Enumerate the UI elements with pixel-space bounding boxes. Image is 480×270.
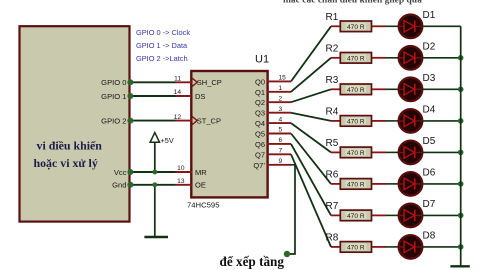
svg-text:D2: D2 [423, 42, 436, 53]
pin name Q4 [255, 119, 265, 128]
svg-text:D4: D4 [423, 105, 436, 116]
resistor label R2 [326, 44, 339, 55]
pin stub DS (pin 14) [176, 95, 193, 97]
svg-text:SH_CP: SH_CP [197, 78, 222, 87]
svg-text:2: 2 [279, 95, 283, 102]
pin name SH_CP [197, 78, 222, 87]
svg-text:R6: R6 [326, 170, 339, 181]
LED label D5 [423, 136, 436, 147]
resistor R2 [331, 53, 386, 64]
svg-text:4: 4 [279, 116, 283, 123]
svg-text:12: 12 [174, 114, 182, 121]
wire Q5 to R6 [291, 134, 331, 184]
svg-text:Q5: Q5 [255, 130, 265, 139]
pin name ST_CP [197, 117, 221, 126]
svg-text:D3: D3 [423, 73, 436, 84]
pin number 15 [279, 75, 287, 82]
wire D8 to bus [422, 246, 461, 248]
svg-text:U1: U1 [255, 54, 269, 66]
LED label D3 [423, 73, 436, 84]
junction dot bus row 2 [458, 55, 464, 61]
svg-text:Q6: Q6 [255, 140, 265, 149]
wire R8 to D8 [386, 246, 400, 248]
+5V power symbol [150, 133, 159, 172]
svg-text:9: 9 [279, 158, 283, 165]
wire R2 to D2 [386, 57, 400, 59]
wire Q1 to R2 [291, 58, 331, 92]
pin stub Q0 (pin 15) [267, 80, 291, 82]
svg-text:Q7’: Q7’ [253, 161, 265, 170]
svg-text:74HC595: 74HC595 [187, 201, 219, 210]
wire Vcc to chip [130, 171, 176, 173]
svg-text:Q2: Q2 [255, 98, 265, 107]
LED label D2 [423, 42, 436, 53]
svg-text:Vcc: Vcc [114, 168, 127, 177]
cut-off caption text (top edge) [283, 0, 422, 5]
pin number 5 [279, 127, 283, 134]
resistor R1 [331, 21, 386, 32]
shift register U1 74HC595 body [191, 71, 267, 197]
MCU pin label GPIO 0 [101, 78, 126, 87]
wire D1 to bus [422, 25, 461, 27]
terminal dot GPIO 0 [127, 79, 133, 85]
pin name Q6 [255, 140, 265, 149]
svg-text:Q7: Q7 [255, 150, 265, 159]
LED D6 [399, 172, 423, 196]
terminal dot GPIO 1 [127, 93, 133, 99]
resistor label R8 [326, 233, 339, 244]
svg-text:DS: DS [195, 92, 205, 101]
svg-text:D6: D6 [423, 168, 436, 179]
svg-text:vi điều khiển: vi điều khiển [37, 138, 103, 152]
pin name Q1 [255, 88, 265, 97]
pin stub Q4 (pin 4) [267, 122, 291, 124]
cascade label [220, 254, 285, 269]
resistor R7 [331, 210, 386, 221]
pin name MR [195, 168, 207, 177]
svg-text:Q4: Q4 [255, 119, 265, 128]
pin name Q7 [255, 150, 265, 159]
pin stub Q6 (pin 6) [267, 143, 291, 145]
wire R3 to D3 [386, 88, 400, 90]
resistor R4 [331, 116, 386, 127]
pin number 4 [279, 116, 283, 123]
annotation GPIO 1 -> Data [136, 41, 188, 50]
microcontroller label line 1 [37, 138, 103, 152]
pin stub SH_CP (pin 11) [176, 81, 193, 83]
svg-text:OE: OE [195, 181, 206, 190]
junction dot bus row 4 [458, 118, 464, 124]
pin stub Q5 (pin 5) [267, 133, 291, 135]
pin stub Q1 (pin 1) [267, 91, 291, 93]
pin stub OE (pin 13) [176, 184, 193, 186]
MCU pin label GPIO 1 [101, 92, 126, 101]
svg-text:hoặc vi xử lý: hoặc vi xử lý [34, 156, 98, 170]
svg-text:Q1: Q1 [255, 88, 265, 97]
annotation GPIO 2 ->Latch [136, 54, 188, 63]
svg-text:GPIO 0: GPIO 0 [101, 78, 126, 87]
svg-text:Gnd: Gnd [112, 181, 126, 190]
annotation GPIO 0 -> Clock [136, 28, 190, 37]
LED label D6 [423, 168, 436, 179]
wire GPIO 0 to chip [130, 81, 176, 83]
svg-text:1: 1 [279, 85, 283, 92]
svg-text:13: 13 [177, 178, 185, 185]
svg-text:Q0: Q0 [255, 77, 265, 86]
LED D7 [399, 204, 423, 228]
MCU pin label Vcc [114, 168, 127, 177]
svg-text:5: 5 [279, 127, 283, 134]
LED label D8 [423, 231, 436, 242]
wire R6 to D6 [386, 183, 400, 185]
wire Q7 to R8 [291, 154, 331, 247]
resistor label R4 [326, 107, 339, 118]
LED label D1 [423, 10, 436, 21]
pin number 14 [174, 89, 182, 96]
LED D8 [399, 235, 423, 259]
pin number 7 [279, 148, 283, 155]
ground symbol (left) [144, 185, 168, 237]
clock chevron on SH_CP [192, 78, 197, 86]
pin name Q2 [255, 98, 265, 107]
svg-text:R4: R4 [326, 107, 339, 118]
wire Q2 to R3 [291, 89, 331, 102]
svg-text:GPIO 1: GPIO 1 [101, 92, 126, 101]
microcontroller label line 2 [34, 156, 98, 170]
wire Gnd to chip [130, 184, 176, 186]
LED D5 [399, 141, 423, 165]
svg-text:D5: D5 [423, 136, 436, 147]
pin stub MR (pin 10) [176, 171, 193, 173]
svg-text:GPIO 2 ->Latch: GPIO 2 ->Latch [136, 54, 188, 63]
wire R5 to D5 [386, 151, 400, 153]
junction dot bus row 3 [458, 87, 464, 93]
74HC595 value label [187, 201, 219, 210]
svg-text:15: 15 [279, 75, 287, 82]
resistor label R5 [326, 138, 339, 149]
junction dot bus row 6 [458, 181, 464, 187]
pin name Q7' [253, 161, 265, 170]
terminal dot Gnd [127, 182, 133, 188]
junction dot bus row 8 [458, 244, 464, 250]
svg-text:R2: R2 [326, 44, 339, 55]
pin number 3 [279, 106, 283, 113]
svg-text:10: 10 [177, 165, 185, 172]
resistor label R6 [326, 170, 339, 181]
junction dot Vcc/+5V [152, 170, 157, 175]
svg-text:470 R: 470 R [347, 24, 365, 31]
svg-text:R5: R5 [326, 138, 339, 149]
svg-text:14: 14 [174, 89, 182, 96]
resistor label R7 [326, 201, 339, 212]
svg-text:D7: D7 [423, 199, 436, 210]
svg-text:470 R: 470 R [347, 55, 365, 62]
pin stub Q3 (pin 3) [267, 112, 291, 114]
LED label D4 [423, 105, 436, 116]
pin name Q3 [255, 109, 265, 118]
pin number 10 [177, 165, 185, 172]
junction dot Gnd wire [152, 182, 157, 187]
junction dot bus row 5 [458, 150, 464, 156]
resistor label R3 [326, 75, 339, 86]
svg-text:GPIO 1 -> Data: GPIO 1 -> Data [136, 41, 188, 50]
wire GPIO 1 to chip [130, 95, 176, 97]
wire Q7' cascade [288, 165, 295, 254]
svg-text:R7: R7 [326, 201, 339, 212]
wire D4 to bus [422, 120, 461, 122]
svg-text:470 R: 470 R [347, 118, 365, 125]
wire Q6 to R7 [291, 144, 331, 216]
pin number 1 [279, 85, 283, 92]
LED D3 [399, 78, 423, 102]
MCU pin label Gnd [112, 181, 126, 190]
LED D4 [399, 109, 423, 133]
wire R4 to D4 [386, 120, 400, 122]
wire R7 to D7 [386, 214, 400, 216]
MCU pin label GPIO 2 [101, 116, 126, 125]
pin stub Q7' (pin 9) [267, 164, 291, 166]
resistor R8 [331, 242, 386, 253]
ground symbol (bus) [450, 265, 469, 267]
LED D2 [399, 46, 423, 70]
wire Q4 to R5 [291, 123, 331, 152]
+5V label [161, 136, 174, 145]
pin stub ST_CP (pin 12) [176, 120, 193, 122]
pin number 6 [279, 137, 283, 144]
pin number 13 [177, 178, 185, 185]
svg-text:để xếp tầng: để xếp tầng [220, 254, 285, 269]
svg-text:6: 6 [279, 137, 283, 144]
svg-text:11: 11 [174, 76, 181, 83]
resistor label R1 [326, 12, 339, 23]
svg-text:470 R: 470 R [347, 87, 365, 94]
wire D3 to bus [422, 88, 461, 90]
svg-text:D1: D1 [423, 10, 436, 21]
pin name DS [195, 92, 205, 101]
terminal dot GPIO 2 [127, 118, 133, 124]
resistor R5 [331, 147, 386, 158]
wire Q0 to R1 [291, 26, 331, 81]
wire Q3 to R4 [291, 113, 331, 121]
svg-text:ST_CP: ST_CP [197, 117, 221, 126]
svg-text:R3: R3 [326, 75, 339, 86]
svg-text:+5V: +5V [161, 136, 174, 145]
wire R1 to D1 [386, 25, 400, 27]
pin stub Q7 (pin 7) [267, 153, 291, 155]
pin name Q0 [255, 77, 265, 86]
svg-text:470 R: 470 R [347, 181, 365, 188]
wire D5 to bus [422, 151, 461, 153]
resistor R3 [331, 84, 386, 95]
svg-text:R1: R1 [326, 12, 339, 23]
svg-text:GPIO 0 -> Clock: GPIO 0 -> Clock [136, 28, 190, 37]
svg-text:470 R: 470 R [347, 150, 365, 157]
pin number 9 [279, 158, 283, 165]
clock chevron on ST_CP [192, 117, 197, 125]
pin number 12 [174, 114, 182, 121]
svg-text:470 R: 470 R [347, 244, 365, 251]
svg-text:mắc các chân điều khiển ghép q: mắc các chân điều khiển ghép qua [283, 0, 422, 5]
svg-text:470 R: 470 R [347, 213, 365, 220]
pin stub Q2 (pin 2) [267, 101, 291, 103]
svg-text:Q3: Q3 [255, 109, 265, 118]
wire GPIO 2 to chip [130, 120, 176, 122]
microcontroller block body [20, 26, 130, 221]
svg-text:GPIO 2: GPIO 2 [101, 116, 126, 125]
LED D1 [399, 14, 423, 38]
pin name OE [195, 181, 206, 190]
pin number 2 [279, 95, 283, 102]
svg-text:3: 3 [279, 106, 283, 113]
U1 reference label [255, 54, 269, 66]
svg-text:R8: R8 [326, 233, 339, 244]
junction dot bus row 7 [458, 213, 464, 219]
wire D2 to bus [422, 57, 461, 59]
svg-text:D8: D8 [423, 231, 436, 242]
resistor R6 [331, 179, 386, 190]
terminal dot Vcc [127, 169, 133, 175]
svg-text:MR: MR [195, 168, 207, 177]
pin name Q5 [255, 130, 265, 139]
cascade terminal dot [284, 251, 290, 257]
LED label D7 [423, 199, 436, 210]
wire D7 to bus [422, 214, 461, 216]
wire D6 to bus [422, 183, 461, 185]
cathode bus wire [460, 26, 462, 265]
pin number 11 [174, 76, 181, 83]
svg-text:7: 7 [279, 148, 283, 155]
